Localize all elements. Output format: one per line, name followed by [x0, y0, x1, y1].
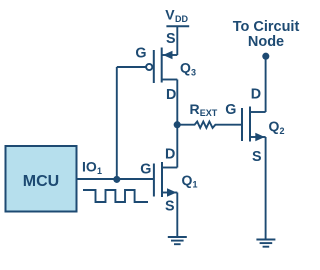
svg-text:G: G	[140, 161, 151, 177]
svg-text:D: D	[251, 87, 261, 103]
svg-text:S: S	[165, 199, 175, 215]
svg-text:1: 1	[193, 180, 198, 190]
svg-text:To Circuit: To Circuit	[233, 19, 300, 35]
svg-text:Q: Q	[269, 118, 280, 134]
svg-text:Q: Q	[180, 60, 191, 76]
svg-text:G: G	[135, 46, 146, 62]
svg-text:D: D	[166, 87, 176, 103]
svg-text:S: S	[252, 149, 262, 165]
svg-text:G: G	[225, 102, 236, 118]
svg-text:Q: Q	[182, 172, 193, 188]
svg-text:MCU: MCU	[23, 173, 59, 190]
svg-text:V: V	[165, 7, 175, 23]
svg-text:1: 1	[97, 166, 102, 176]
svg-text:S: S	[166, 31, 176, 47]
svg-text:DD: DD	[175, 14, 188, 24]
svg-text:EXT: EXT	[200, 108, 218, 118]
svg-text:R: R	[190, 101, 200, 117]
svg-text:IO: IO	[82, 159, 97, 175]
svg-text:Node: Node	[248, 34, 284, 50]
svg-text:2: 2	[280, 126, 285, 136]
svg-text:3: 3	[191, 68, 196, 78]
svg-text:D: D	[165, 147, 175, 163]
